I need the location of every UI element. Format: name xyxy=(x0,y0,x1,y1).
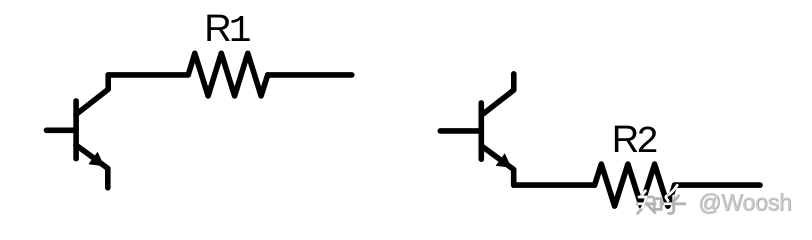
wire collector to R1 xyxy=(108,72,188,78)
transistor Q2 emitter arrowhead xyxy=(496,153,512,168)
watermark text @Woosh xyxy=(698,189,792,216)
transistor Q1 base lead xyxy=(47,128,76,134)
wire R2 to output xyxy=(675,182,760,188)
resistor R2 xyxy=(595,164,675,206)
transistor Q2 emitter lead xyxy=(481,146,513,185)
transistor Q1 emitter arrowhead xyxy=(88,152,104,167)
transistor Q2 collector lead xyxy=(481,74,514,116)
svg-text:R2: R2 xyxy=(612,119,659,164)
watermark knockout (white over circuit ink) xyxy=(637,185,685,213)
svg-text:R1: R1 xyxy=(204,8,251,53)
watermark glyph 乎 xyxy=(662,185,685,213)
watermark glyph 知 xyxy=(637,185,685,213)
transistor Q2 base bar xyxy=(478,103,484,159)
wire R1 to output xyxy=(268,72,352,78)
svg-text:@Woosh: @Woosh xyxy=(698,189,792,215)
transistor Q2 base lead xyxy=(440,128,481,134)
transistor Q1 base bar xyxy=(73,101,79,159)
transistor Q1 emitter lead xyxy=(76,145,108,188)
wire emitter to R2 xyxy=(514,182,595,188)
resistor R1 xyxy=(188,53,268,96)
watermark 知乎 @Woosh xyxy=(637,185,792,215)
transistor Q1 collector lead xyxy=(76,75,108,115)
